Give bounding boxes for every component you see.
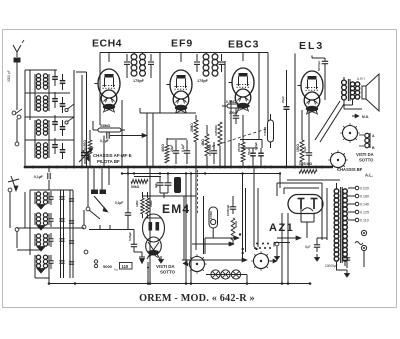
svg-text:A.L.: A.L. xyxy=(365,173,373,178)
svg-text:B: B xyxy=(372,146,375,150)
tube socket bottom 1 xyxy=(183,254,207,273)
capacitor 21uF xyxy=(303,146,312,167)
svg-text:2MΩ: 2MΩ xyxy=(149,200,153,207)
svg-text:100µF: 100µF xyxy=(254,142,258,150)
resistor box 110 xyxy=(120,263,150,270)
tube EF9 xyxy=(167,70,193,114)
trimmer capacitor C11 xyxy=(48,233,53,247)
capacitor 50uF xyxy=(247,148,256,167)
wire transformer bottom xyxy=(277,183,347,270)
svg-text:EL3: EL3 xyxy=(299,40,324,52)
switch rail lines lower xyxy=(61,190,74,278)
wire grid line EF9 xyxy=(140,108,196,167)
dashed vertical wire xyxy=(197,170,199,213)
terminal circle bottom-left of AZ1 xyxy=(275,242,280,260)
resistor 4Mohm xyxy=(201,134,209,156)
svg-text:10000pF: 10000pF xyxy=(226,205,230,216)
power transformer xyxy=(334,183,347,270)
svg-text:A: A xyxy=(372,134,375,138)
ground EM4 xyxy=(134,252,145,264)
svg-text:8µF: 8µF xyxy=(305,245,311,249)
IF transformer T2 xyxy=(194,53,225,84)
capacitor 0.1uF mid-low xyxy=(115,168,131,222)
padder capacitor C20 xyxy=(69,262,74,264)
wire top rail xyxy=(100,53,268,168)
mica capacitors dark pair xyxy=(91,169,108,213)
lower rail wire xyxy=(122,174,340,189)
resistor 150ohm osc xyxy=(83,130,92,167)
svg-text:150Ω: 150Ω xyxy=(296,144,300,152)
resistor 400ohm xyxy=(161,138,169,163)
svg-text:0,1µF: 0,1µF xyxy=(34,175,43,179)
padder capacitor C6 xyxy=(60,97,66,113)
resistor 50kohm xyxy=(131,180,148,190)
ground power 1 xyxy=(315,254,320,261)
tube ECH4 xyxy=(95,69,121,113)
svg-text:0,25 MΩ: 0,25 MΩ xyxy=(299,162,312,166)
trimmer capacitor C1 xyxy=(52,70,58,86)
resistor 5/8 Mohm box xyxy=(93,124,125,132)
diagonal wires to sockets xyxy=(315,101,344,142)
padder capacitor C7 xyxy=(60,120,66,136)
tube EM4 xyxy=(143,214,165,259)
tuning capacitor with arrow xyxy=(79,148,93,165)
capacitor 0.1uF EF9 xyxy=(181,140,190,164)
coil L2 xyxy=(35,96,49,111)
tube EBC3 xyxy=(229,68,255,112)
resistor 1Mohm xyxy=(135,198,144,214)
svg-text:20µF: 20µF xyxy=(170,145,174,152)
svg-text:PILOTA BF: PILOTA BF xyxy=(97,159,120,164)
capacitor 10000pF fono xyxy=(226,196,236,216)
wire EM4 links xyxy=(143,192,197,284)
svg-text:50µF: 50µF xyxy=(247,148,251,155)
capacitor 20uF xyxy=(170,140,179,164)
svg-text:0,5MΩ: 0,5MΩ xyxy=(263,126,267,136)
wire EBC3 cathode xyxy=(240,53,262,149)
svg-text:FONO: FONO xyxy=(209,210,213,219)
resistor 150ohm xyxy=(296,140,304,167)
svg-text:175pF: 175pF xyxy=(197,79,209,83)
svg-text:0.125: 0.125 xyxy=(360,211,369,215)
svg-text:25MΩ: 25MΩ xyxy=(190,123,194,132)
chassis bus line xyxy=(25,166,333,168)
capacitor 0.1uF left xyxy=(48,167,50,190)
svg-text:150Ω: 150Ω xyxy=(83,140,87,148)
coil A-B xyxy=(359,133,375,150)
resistor 0.5Mohm EBC3 xyxy=(222,100,250,108)
resistor 2Mohm xyxy=(146,198,153,214)
svg-text:CHASSIS BF: CHASSIS BF xyxy=(337,167,363,172)
tube AZ1 xyxy=(288,195,323,223)
padder capacitor C5 xyxy=(60,74,66,90)
label M.D. xyxy=(352,114,369,119)
electrolytic capacitors mid xyxy=(154,174,172,194)
svg-text:21µF: 21µF xyxy=(303,146,307,153)
output jacks xyxy=(355,230,367,267)
resistor 25kohm xyxy=(190,120,198,142)
svg-text:0.110: 0.110 xyxy=(360,219,369,223)
ground power 2 xyxy=(345,270,350,277)
svg-text:M.D.: M.D. xyxy=(362,115,369,119)
ground EM4 2 xyxy=(159,256,164,263)
terminal pair bottom xyxy=(94,260,97,268)
dashed AVC line xyxy=(207,129,266,148)
svg-text:0,05µF: 0,05µF xyxy=(128,232,132,241)
capacitor 200pF xyxy=(229,108,239,124)
padder capacitor C8 xyxy=(60,143,66,159)
pilot lamp 1 xyxy=(211,270,220,279)
trimmer capacitor C12 xyxy=(48,255,53,269)
terminal circles lower-left xyxy=(8,188,88,254)
wire mid-low rails xyxy=(109,167,196,284)
coil L7 xyxy=(35,234,49,246)
tube socket bottom 2 xyxy=(251,243,277,271)
svg-text:0.160: 0.160 xyxy=(360,195,369,199)
wire fono rails xyxy=(184,166,258,260)
bus junction dots xyxy=(24,166,324,169)
switch FONO xyxy=(209,207,218,228)
core triangles xyxy=(37,205,45,274)
coil L4 xyxy=(35,143,49,158)
padder capacitor C14 xyxy=(59,219,64,221)
antenna switch terminals xyxy=(12,109,22,146)
svg-text:0,5MΩ: 0,5MΩ xyxy=(226,100,237,104)
coil L8 xyxy=(35,255,49,268)
bottom rail junction dots xyxy=(48,172,312,285)
wire arrow mid xyxy=(93,100,147,167)
svg-text:110: 110 xyxy=(122,264,129,269)
loudspeaker xyxy=(357,74,379,111)
svg-text:50kΩ: 50kΩ xyxy=(131,185,140,189)
wire lamps rail xyxy=(191,240,247,284)
resistor 0.5Mohm vertical box xyxy=(263,114,274,148)
coil L3 xyxy=(35,120,49,135)
output transformer xyxy=(342,77,360,109)
wire EF9 top links xyxy=(196,115,220,167)
wire lower-left extra xyxy=(24,192,26,228)
svg-text:1MΩ: 1MΩ xyxy=(135,200,139,207)
switch terminals mid-left xyxy=(65,72,87,167)
resistor 4.65Mohm xyxy=(214,122,222,146)
resistor volume xyxy=(231,218,238,240)
trimmer capacitor C9 xyxy=(48,191,53,205)
coil L1 xyxy=(35,74,49,89)
svg-text:5000pF: 5000pF xyxy=(317,60,321,71)
capacitor 10000pF mid xyxy=(208,142,217,164)
svg-text:4MΩ: 4MΩ xyxy=(201,139,205,146)
IF transformer T1 xyxy=(124,53,154,84)
coil L5 xyxy=(35,192,49,204)
svg-text:200pF: 200pF xyxy=(229,111,238,115)
padder capacitor C13 xyxy=(59,197,64,199)
wire corner near AZ1 xyxy=(239,233,290,254)
svg-text:VISTI DA: VISTI DA xyxy=(356,152,374,157)
capacitor 0.05uF EM4 xyxy=(128,230,137,253)
terminal and switch arm xyxy=(86,168,100,219)
capacitor 5000pF EL3 xyxy=(312,56,328,101)
padder capacitor C19 xyxy=(69,241,74,243)
capacitor 0.1uF ECH4 xyxy=(100,132,109,143)
wire AZ1 rails xyxy=(150,188,319,284)
svg-text:0.140: 0.140 xyxy=(360,203,369,207)
svg-text:⅛ω: ⅛ω xyxy=(114,268,118,272)
padder capacitor C17 xyxy=(69,199,74,201)
capacitor 8uF xyxy=(305,238,320,252)
svg-text:4,65MΩ: 4,65MΩ xyxy=(214,125,218,136)
trimmer capacitor C10 xyxy=(48,213,53,227)
svg-text:CHASSIS AF-MF-E: CHASSIS AF-MF-E xyxy=(93,153,132,158)
svg-text:SOTTO: SOTTO xyxy=(160,270,176,275)
capacitor 20pF EL3 grid xyxy=(281,70,290,167)
svg-text:20pF: 20pF xyxy=(281,96,285,103)
resistor block dark xyxy=(174,177,181,193)
padder capacitor C15 xyxy=(59,239,64,241)
capacitor EBC3 out xyxy=(254,142,264,167)
wire speaker bottom xyxy=(344,99,362,109)
resistor 0.25Mohm xyxy=(299,162,317,173)
tube EL3 xyxy=(298,71,324,115)
svg-text:EBC3: EBC3 xyxy=(228,39,259,51)
svg-text:2000 pF: 2000 pF xyxy=(7,70,11,82)
svg-text:175pF: 175pF xyxy=(133,79,145,83)
svg-text:OREM - MOD. « 642-R »: OREM - MOD. « 642-R » xyxy=(139,293,255,304)
tube socket top view 2 xyxy=(328,150,347,169)
ground arrow osc xyxy=(83,150,89,161)
ground arrow bottom-left xyxy=(8,176,19,191)
padder capacitor C18 xyxy=(69,221,74,223)
mains taps xyxy=(348,186,369,222)
svg-text:50kΩ: 50kΩ xyxy=(234,220,238,228)
wire sockets rail xyxy=(182,242,247,262)
svg-text:0.220: 0.220 xyxy=(360,187,369,191)
svg-text:VISTI DA: VISTI DA xyxy=(156,264,175,269)
svg-text:9µF: 9µF xyxy=(154,183,158,188)
coil L6 xyxy=(35,213,49,225)
svg-text:SOTTO: SOTTO xyxy=(359,158,374,163)
padder capacitor C16 xyxy=(59,261,64,263)
wire EL3 rails xyxy=(295,54,309,168)
svg-text:U.R.7: U.R.7 xyxy=(357,77,365,81)
svg-text:ECH4: ECH4 xyxy=(92,38,122,50)
wire EF9 cathode rail xyxy=(167,138,187,140)
trimmer capacitor C2 xyxy=(52,92,58,108)
wire EM4 grid rail xyxy=(89,222,134,230)
pilot lamp 2 xyxy=(221,270,230,279)
trimmer capacitor C4 xyxy=(52,138,58,154)
svg-text:2500Ω: 2500Ω xyxy=(237,142,241,152)
svg-text:5000: 5000 xyxy=(103,264,113,269)
svg-text:0,1µF: 0,1µF xyxy=(181,144,185,152)
svg-text:0,1µF: 0,1µF xyxy=(115,201,123,205)
capacitor 10000pF out xyxy=(344,252,350,268)
antenna xyxy=(7,40,24,110)
svg-text:10000pF: 10000pF xyxy=(208,144,212,156)
svg-text:5/8MΩ: 5/8MΩ xyxy=(100,124,111,128)
svg-text:10000pF: 10000pF xyxy=(325,264,338,268)
svg-text:EF9: EF9 xyxy=(171,38,193,50)
tube socket top view 1 xyxy=(340,123,359,142)
trimmer capacitor C3 xyxy=(52,115,58,131)
left section wiring xyxy=(10,70,150,284)
resistor 2500ohm xyxy=(237,115,245,167)
pilot lamp 3 xyxy=(231,270,240,279)
svg-text:400Ω: 400Ω xyxy=(161,144,165,152)
